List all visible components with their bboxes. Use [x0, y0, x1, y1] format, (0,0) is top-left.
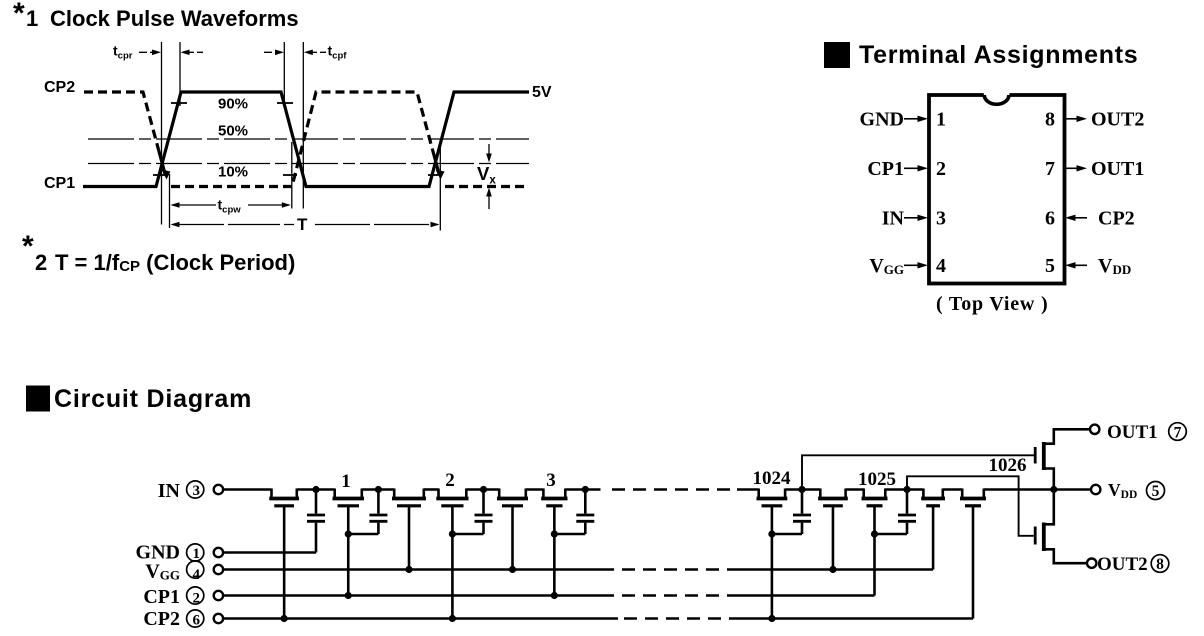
- svg-text:90%: 90%: [218, 96, 248, 113]
- V_x arrows: [488, 144, 490, 209]
- svg-text:1: 1: [193, 546, 201, 562]
- label CP2 (6): [187, 610, 204, 627]
- svg-text:2: 2: [35, 250, 47, 275]
- svg-text:CP2: CP2: [44, 79, 75, 96]
- junction Q2 gate on CP1: [345, 592, 352, 599]
- svg-text:GND: GND: [860, 109, 904, 131]
- arrow OUT1: [1066, 167, 1079, 169]
- arrow GND: [904, 118, 919, 120]
- junction VDD node: [1050, 486, 1057, 493]
- junction C1025 top / OUT2 tap: [903, 486, 910, 493]
- terminal VDD: [1091, 485, 1100, 494]
- arrow CP1: [904, 167, 919, 169]
- svg-text:Terminal Assignments: Terminal Assignments: [859, 41, 1138, 69]
- svg-text:6: 6: [193, 613, 201, 629]
- transistor Q1: [269, 489, 299, 506]
- terminal CP2: [214, 614, 223, 623]
- wire Q1025a gate to VGG: [832, 506, 835, 570]
- svg-text:3: 3: [546, 470, 556, 491]
- capacitor C1025: [898, 490, 916, 535]
- svg-text:2: 2: [936, 158, 946, 180]
- junction Q2 gate / C2: [345, 530, 352, 537]
- junction C1024 top / OUT1 tap: [798, 486, 805, 493]
- capacitor C2: [369, 490, 387, 535]
- wire Q1 gate to CP2: [283, 506, 286, 619]
- svg-text:CP1: CP1: [143, 586, 180, 608]
- svg-text:2: 2: [193, 591, 201, 607]
- wire Q4 gate to CP2: [451, 506, 454, 619]
- wire C1024 bottom to Q1024 gate: [772, 533, 802, 536]
- svg-text:OUT1: OUT1: [1107, 422, 1158, 443]
- svg-text:1: 1: [26, 6, 38, 31]
- svg-text:1026: 1026: [989, 455, 1027, 476]
- t_cpr arrows: [139, 51, 203, 53]
- arrow VDD: [1074, 264, 1087, 266]
- svg-text:3: 3: [193, 483, 201, 499]
- junction C3 top: [480, 486, 487, 493]
- svg-text:CP2: CP2: [1098, 208, 1135, 230]
- svg-text:2: 2: [445, 470, 455, 491]
- label GND (1): [187, 544, 204, 561]
- wire CP2 row: [223, 617, 618, 620]
- 50% reference line: [88, 138, 529, 140]
- wire CP2 riser to Q1026b gate: [972, 506, 975, 619]
- wire C3 bottom to Q4 gate: [452, 533, 483, 536]
- svg-text:4: 4: [193, 567, 201, 583]
- transistor QB (OUT2 follower): [1035, 490, 1087, 564]
- svg-text:1: 1: [341, 471, 351, 492]
- transistor Q3: [392, 489, 426, 506]
- arrow CP2: [1074, 217, 1087, 219]
- transistor Q1026b: [960, 489, 986, 506]
- capacitor C4: [576, 490, 594, 535]
- wire CP1 riser to Q1025b gate: [873, 506, 876, 596]
- svg-text:1024: 1024: [753, 468, 792, 489]
- wire C1025 bottom to Q1025b gate: [875, 533, 908, 536]
- heading Circuit Diagram: [26, 385, 252, 413]
- arrowhead CP2 fall 2: [436, 170, 445, 180]
- waveform CP2 (dashed): [84, 92, 529, 187]
- 10% ticks: [153, 174, 441, 176]
- label CP1 (2): [187, 587, 204, 604]
- junction Q1025b gate / C1025: [871, 530, 878, 537]
- svg-text:*: *: [22, 230, 34, 263]
- 90% ticks: [171, 102, 293, 104]
- junction Q1025a gate on VGG: [829, 566, 836, 573]
- svg-text:Clock Pulse Waveforms: Clock Pulse Waveforms: [50, 6, 299, 31]
- wire GND row: [223, 551, 316, 554]
- svg-text:OUT2: OUT2: [1091, 109, 1144, 131]
- wire Q5 gate to VGG: [511, 506, 514, 570]
- measure verticals: [162, 42, 441, 231]
- title *1 Clock Pulse Waveforms: [13, 0, 299, 31]
- svg-text:Circuit Diagram: Circuit Diagram: [54, 385, 252, 413]
- wire Q1024 gate to CP2: [771, 506, 774, 619]
- junction Q1024 gate / C1024: [768, 530, 775, 537]
- svg-text:OUT1: OUT1: [1091, 158, 1144, 180]
- svg-text:IN: IN: [158, 480, 181, 502]
- note *2 T = 1/f_CP (Clock Period): [22, 230, 295, 275]
- svg-text:CP2: CP2: [143, 608, 180, 630]
- svg-text:7: 7: [1174, 424, 1182, 441]
- T dimension: [172, 224, 438, 226]
- t_cpf arrows: [264, 51, 326, 53]
- wire dashed continuation: [612, 488, 737, 491]
- transistor Q1024: [757, 489, 788, 506]
- wire C2 bottom to Q2 gate: [348, 533, 378, 536]
- wire CP1 row: [223, 594, 614, 597]
- terminal VGG: [214, 565, 223, 574]
- capacitor C1: [307, 490, 325, 553]
- svg-text:1: 1: [936, 109, 946, 131]
- junction C1 top: [312, 486, 319, 493]
- waveform CP1 (solid): [83, 92, 529, 187]
- terminal OUT1: [1090, 425, 1099, 434]
- arrow IN: [904, 217, 919, 219]
- wire C4 bottom to Q6 gate: [554, 533, 585, 536]
- junction Q3 gate on VGG: [405, 566, 412, 573]
- svg-text:8: 8: [1045, 109, 1055, 131]
- terminal OUT2: [1087, 559, 1096, 568]
- svg-text:50%: 50%: [218, 123, 248, 140]
- svg-text:3: 3: [936, 208, 946, 230]
- junction C4 top: [582, 486, 589, 493]
- wire stage1025 node to QB gate: [907, 476, 1034, 536]
- svg-text:7: 7: [1045, 158, 1055, 180]
- wire Q6 gate to CP1: [553, 506, 556, 596]
- svg-text:*: *: [13, 0, 25, 30]
- crossing level line: [88, 163, 529, 165]
- capacitor C3: [475, 490, 493, 535]
- svg-text:5: 5: [1152, 483, 1160, 500]
- junction Q5 gate on VGG: [509, 566, 516, 573]
- junction Q4 gate / C3: [449, 530, 456, 537]
- svg-text:OUT2: OUT2: [1097, 554, 1148, 575]
- arrow OUT2: [1066, 118, 1079, 120]
- transistor QA (OUT1 follower): [1035, 429, 1090, 489]
- svg-text:( Top View ): ( Top View ): [936, 293, 1048, 315]
- transistor Q1025b: [862, 489, 888, 506]
- wire VGG row: [223, 568, 614, 571]
- transistor Q4: [436, 489, 468, 506]
- junction Q6 gate on CP1: [551, 592, 558, 599]
- wire stage1024 node to QA gate: [802, 455, 1035, 489]
- transistor Q5: [497, 489, 528, 506]
- svg-text:CP1: CP1: [867, 158, 904, 180]
- label IN (3): [187, 481, 204, 498]
- junction Q1024 gate on CP2: [768, 615, 775, 622]
- heading Terminal Assignments: [824, 41, 1138, 69]
- terminal GND: [214, 548, 223, 557]
- wire Q2 gate to CP1: [347, 506, 350, 596]
- terminal CP1: [214, 591, 223, 600]
- capacitor C1024: [793, 490, 811, 535]
- svg-text:CP1: CP1: [44, 175, 75, 192]
- svg-text:10%: 10%: [218, 164, 248, 181]
- arrow VGG: [904, 264, 919, 266]
- svg-text:T: T: [297, 215, 308, 234]
- wire Q3 gate to VGG: [408, 506, 411, 570]
- svg-text:5: 5: [1045, 255, 1055, 277]
- label VGG (4): [187, 561, 204, 578]
- terminal IN: [214, 485, 223, 494]
- junction Q6 gate / C4: [551, 530, 558, 537]
- package outline U1: [929, 92, 1065, 283]
- transistor Q6: [541, 489, 567, 506]
- junction C2 top: [375, 486, 382, 493]
- svg-text:4: 4: [936, 255, 946, 277]
- svg-text:1025: 1025: [858, 469, 896, 490]
- junction Q4 gate on CP2: [449, 615, 456, 622]
- junction Q1 gate on CP2: [281, 615, 288, 622]
- svg-text:8: 8: [1156, 556, 1164, 573]
- transistor Q1025a: [818, 489, 848, 506]
- svg-text:T = 1/fCP (Clock Period): T = 1/fCP (Clock Period): [55, 250, 295, 275]
- wire VGG riser to Q1026a gate: [932, 506, 935, 570]
- wire IN to chain: [223, 488, 1091, 491]
- svg-text:IN: IN: [882, 208, 905, 230]
- svg-text:6: 6: [1045, 208, 1055, 230]
- t_cpw dimension: [172, 204, 289, 206]
- arrowhead CP2 fall 1: [162, 170, 171, 180]
- transistor Q1026a: [921, 489, 945, 506]
- transistor Q2: [333, 489, 365, 506]
- svg-text:5V: 5V: [532, 84, 552, 101]
